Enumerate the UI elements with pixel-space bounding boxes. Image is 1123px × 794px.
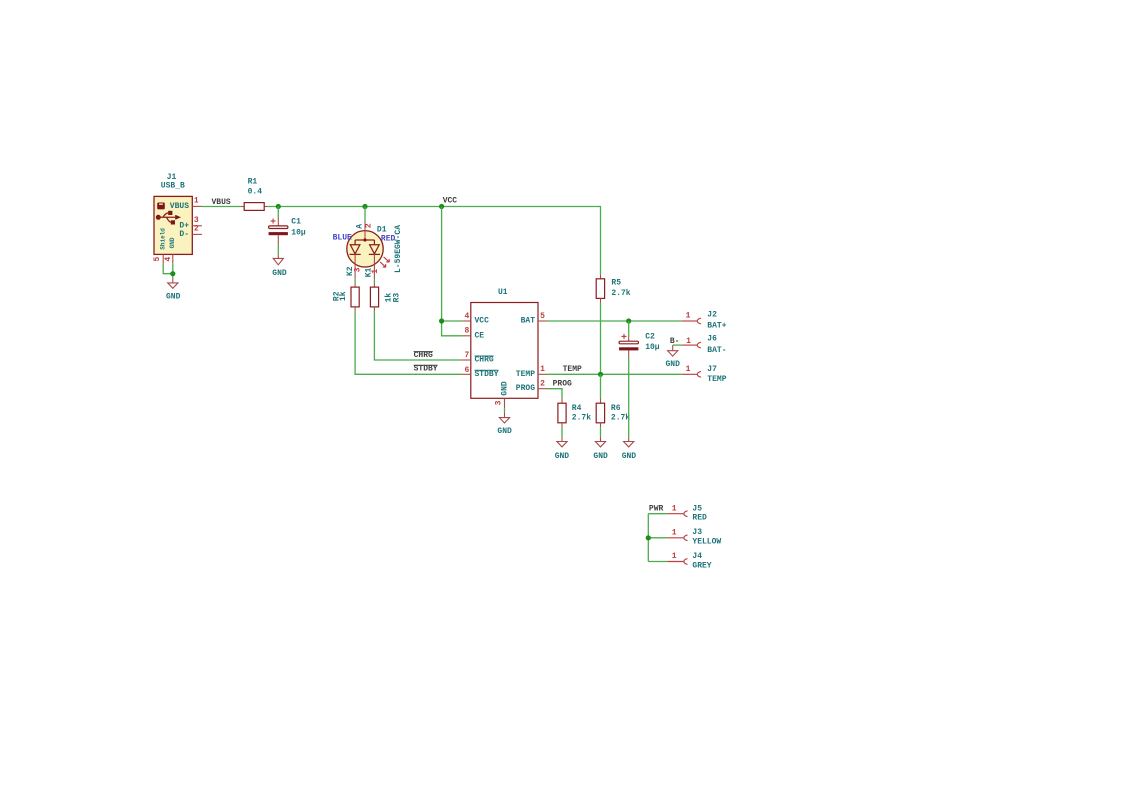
svg-text:10µ: 10µ [291,228,306,237]
wire net VBUS [202,198,241,207]
svg-text:GND: GND [665,360,680,369]
junction PWR [646,535,651,540]
connector J2 BAT+ [682,311,727,331]
ground GND at J1 [166,277,181,301]
svg-text:VCC: VCC [475,317,490,326]
junction J1 ground [170,271,175,276]
svg-text:GND: GND [622,452,637,461]
U1 pin 5 [538,312,547,321]
svg-text:5: 5 [153,257,162,262]
svg-text:6: 6 [464,366,469,375]
ground GND at J6 [665,345,680,369]
svg-text:1: 1 [672,504,677,513]
wire J1 pins 5-4 to ground [163,264,173,278]
svg-text:4: 4 [164,257,173,262]
svg-text:GND: GND [166,293,181,302]
svg-text:J3: J3 [692,528,702,537]
svg-text:1: 1 [686,365,691,374]
ground GND at C1 [272,255,287,278]
svg-text:J4: J4 [692,552,702,561]
U1 pin 2 [538,380,547,389]
svg-text:3: 3 [353,267,362,272]
svg-text:TEMP: TEMP [707,375,726,384]
connector J7 TEMP [682,365,727,384]
svg-text:7: 7 [464,351,469,360]
svg-text:TEMP: TEMP [516,370,535,379]
wire R6 to ground [600,427,602,437]
svg-text:VBUS: VBUS [170,202,189,211]
svg-text:8: 8 [464,327,469,336]
J1 pin 5 [153,254,163,263]
U1 pin 7 [461,351,471,360]
svg-text:U1: U1 [498,288,508,297]
svg-text:4: 4 [464,312,469,321]
resistor R1 0.4 [241,178,268,211]
svg-text:VCC: VCC [443,197,458,206]
svg-text:R6: R6 [611,404,621,413]
junction D1 tap [362,204,367,209]
svg-text:C2: C2 [645,333,655,342]
wire net STDBY [355,311,461,374]
svg-text:Shield: Shield [159,228,166,250]
wire net PWR [648,505,667,562]
U1 pin 3 [494,398,504,408]
svg-text:STDBY: STDBY [475,370,499,379]
svg-text:R1: R1 [248,178,258,187]
U1 pin 6 [461,366,471,375]
wire net BAT [547,320,682,322]
wire net TEMP [547,365,682,374]
wire BAT to C2 [628,321,630,337]
svg-text:BAT+: BAT+ [707,322,726,331]
connector J3 YELLOW [667,528,721,546]
resistor R5 2.7k [596,275,631,303]
svg-text:CHRG: CHRG [475,356,494,365]
svg-text:10µ: 10µ [645,343,660,352]
svg-text:1: 1 [371,269,380,274]
svg-text:C1: C1 [291,218,301,227]
svg-text:1: 1 [672,552,677,561]
ground GND at C2 [622,437,637,460]
junction TEMP divider [598,372,603,377]
connector J4 GREY [667,552,711,570]
svg-text:R5: R5 [611,278,621,287]
LED D1 L-59EGW-CA [333,222,404,280]
svg-text:J5: J5 [692,505,702,514]
svg-text:BLUE: BLUE [333,234,352,243]
svg-text:TEMP: TEMP [563,365,582,374]
svg-text:GND: GND [593,452,608,461]
svg-text:PWR: PWR [649,505,664,514]
svg-text:3: 3 [494,400,503,405]
ground GND at R6 [593,437,608,460]
svg-text:2: 2 [540,380,545,389]
connector J6 BAT- [682,334,727,355]
svg-text:GND: GND [501,381,510,396]
svg-text:PROG: PROG [553,380,572,389]
svg-text:5: 5 [540,312,545,321]
J1 pin 1 [192,197,201,207]
svg-text:2.7k: 2.7k [611,289,630,298]
svg-text:1: 1 [686,312,691,321]
svg-text:GND: GND [272,269,287,278]
svg-text:1k: 1k [339,291,348,301]
wire net PROG [547,380,572,399]
svg-text:2: 2 [194,225,199,234]
svg-text:STDBY: STDBY [414,365,438,374]
svg-text:D-: D- [179,230,189,239]
svg-text:BAT-: BAT- [707,346,726,355]
wire R4 to ground [561,427,563,437]
svg-text:J7: J7 [707,365,717,374]
svg-text:RED: RED [692,514,707,523]
junction C2 tap [626,318,631,323]
svg-text:R3: R3 [392,293,401,303]
svg-text:1: 1 [194,197,199,206]
connector J5 RED [667,504,707,522]
svg-text:CE: CE [475,331,485,340]
wire C1 to ground [277,244,279,255]
wire net B- [670,337,682,346]
svg-text:GND: GND [497,427,512,436]
wire U1 pin3 to ground [504,408,506,412]
ground GND at U1 [497,412,512,436]
svg-text:PROG: PROG [516,384,535,393]
resistor R3 1k [370,284,401,312]
wire D1 K1 to R3 [373,279,375,283]
capacitor C2 10u [619,333,660,358]
wire VCC branch to U1 [442,207,463,336]
junction C1 tap [276,204,281,209]
connector J1 USB_B [154,173,192,254]
svg-text:GND: GND [169,237,176,248]
resistor R4 2.7k [558,399,591,428]
wire to D1 anode [364,207,366,222]
J1 pin 2 [192,225,202,235]
svg-text:YELLOW: YELLOW [692,538,721,547]
svg-text:2.7k: 2.7k [572,413,591,422]
wire to C1 [277,207,279,218]
svg-text:1: 1 [672,529,677,538]
junction VCC tap [439,204,444,209]
resistor R2 1k [332,284,359,312]
svg-text:1: 1 [686,337,691,346]
svg-text:0.4: 0.4 [248,187,263,196]
svg-text:R4: R4 [572,404,582,413]
U1 pin 8 [462,327,470,336]
J1 pin 3 [192,216,202,226]
wire C2 to ground [628,357,630,437]
svg-text:CHRG: CHRG [414,351,433,360]
svg-text:J2: J2 [707,311,717,320]
wire net VCC main [268,197,601,275]
U1 pin 1 [538,365,547,374]
wire R5 to TEMP [600,303,602,374]
svg-text:A: A [355,224,364,229]
U1 pin 4 [462,312,470,321]
wire net CHRG [374,311,461,360]
svg-text:2.7k: 2.7k [611,413,630,422]
svg-text:GND: GND [555,452,570,461]
svg-text:GREY: GREY [692,562,711,571]
junction VCC-CE [439,318,444,323]
svg-text:VBUS: VBUS [212,198,231,207]
svg-text:2: 2 [365,223,374,228]
svg-text:L-59EGW-CA: L-59EGW-CA [394,225,403,273]
svg-text:B-: B- [670,337,680,346]
capacitor C1 10u [269,217,306,244]
svg-text:BAT: BAT [521,317,536,326]
wire D1 K2 to R2 [354,279,356,283]
svg-text:USB_B: USB_B [161,181,185,190]
resistor R6 2.7k [596,374,630,427]
J1 pin 4 [164,254,173,263]
svg-text:1: 1 [540,365,545,374]
op-amp U1 [471,288,538,398]
ground GND at R4 [555,437,570,460]
svg-text:J6: J6 [707,334,717,343]
